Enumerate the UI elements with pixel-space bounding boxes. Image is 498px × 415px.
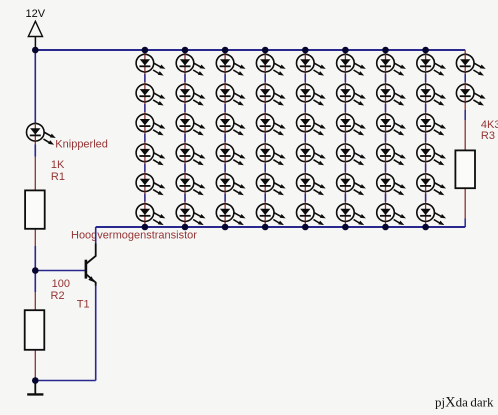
wire left vertical: 12V node down to Knipperled — [34, 50, 36, 123]
LED column 1 row 1 — [136, 54, 165, 75]
LED column 6 row 5 — [337, 174, 366, 195]
wire R1 bottom pin (red) — [34, 229, 36, 246]
junction top rail column 4 — [262, 47, 269, 54]
wire bottom LED return rail (horizontal blue) — [96, 226, 466, 228]
LED column 1 row 3 — [136, 114, 165, 135]
junction base node (R1/R2/T1 base) — [32, 267, 39, 274]
LED column 2 row 3 — [176, 114, 205, 135]
junction top rail column 3 — [222, 47, 229, 54]
LED column 8 row 6 — [417, 204, 446, 225]
junction bottom rail column 2 — [182, 224, 189, 231]
LED column 1 row 2 — [136, 84, 165, 105]
junction top rail column 6 — [342, 47, 349, 54]
resistor R1 (1K) — [25, 190, 45, 228]
LED column 4 row 3 — [256, 114, 285, 135]
power supply symbol 12V (arrow) — [28, 21, 42, 50]
wire LED column 8 (red series string) — [425, 50, 427, 227]
transistor T1 (NPN, Hoogvermogenstransistor) — [86, 244, 96, 286]
LED column 4 row 4 — [256, 144, 285, 165]
svg-text:R1: R1 — [51, 171, 65, 183]
LED column 4 row 2 — [256, 84, 285, 105]
LED column 4 row 1 — [256, 54, 285, 75]
svg-text:Knipperled: Knipperled — [55, 139, 108, 151]
junction bottom rail column 3 — [222, 224, 229, 231]
LED column 4 row 6 — [256, 204, 285, 225]
junction top rail column 1 — [142, 47, 149, 54]
wire base node to R2 (blue) — [34, 271, 36, 293]
LED column 3 row 4 — [216, 144, 245, 165]
resistor R2 (100) — [25, 310, 45, 350]
wire base node to T1 base (horizontal blue) — [35, 270, 85, 272]
wire LED column 1 (red series string) — [144, 50, 146, 227]
LED column 5 row 3 — [297, 114, 326, 135]
LED column 6 row 2 — [337, 84, 366, 105]
wire T1 collector up to LED return rail (blue) — [95, 227, 97, 244]
wire T1 emitter down (blue) — [95, 285, 97, 381]
LED right column row 2 — [456, 84, 485, 105]
LED column 6 row 4 — [337, 144, 366, 165]
junction 12V node (top left) — [32, 47, 39, 54]
LED column 5 row 5 — [297, 174, 326, 195]
LED column 5 row 1 — [297, 54, 326, 75]
svg-text:R3: R3 — [481, 130, 495, 142]
LED column 3 row 1 — [216, 54, 245, 75]
wire LED column 6 (red series string) — [344, 50, 346, 227]
LED column 2 row 5 — [176, 174, 205, 195]
LED column 7 row 3 — [377, 114, 406, 135]
wire Knipperled to R1 (blue segment) — [34, 144, 36, 156]
svg-text:pjXdadark: pjXdadark — [435, 395, 494, 411]
junction ground node — [32, 377, 39, 384]
wire top 12V rail (horizontal) — [35, 49, 465, 51]
junction top rail column 2 — [182, 47, 189, 54]
LED column 1 row 4 — [136, 144, 165, 165]
LED column 5 row 4 — [297, 144, 326, 165]
LED column 8 row 1 — [417, 54, 446, 75]
LED column 7 row 2 — [377, 84, 406, 105]
LED column 1 row 5 — [136, 174, 165, 195]
LED column 1 row 6 — [136, 204, 165, 225]
LED column 8 row 4 — [417, 144, 446, 165]
wire LED column 4 (red series string) — [264, 50, 266, 227]
LED Knipperled (blink indicator) — [27, 123, 56, 144]
junction bottom rail column 4 — [262, 224, 269, 231]
resistor R3 (4K3) — [455, 150, 475, 188]
junction bottom rail column 6 — [342, 224, 349, 231]
LED column 7 row 4 — [377, 144, 406, 165]
LED column 8 row 3 — [417, 114, 446, 135]
LED column 2 row 4 — [176, 144, 205, 165]
wire R2 bottom pin (red) — [34, 350, 36, 381]
junction bottom rail column 8 — [422, 224, 429, 231]
LED column 7 row 6 — [377, 204, 406, 225]
LED column 8 row 2 — [417, 84, 446, 105]
LED column 5 row 2 — [297, 84, 326, 105]
wire R2 top pin (red) — [34, 292, 36, 310]
LED column 7 row 1 — [377, 54, 406, 75]
svg-text:R2: R2 — [51, 290, 65, 302]
wire LED column 2 (red series string) — [184, 50, 186, 227]
svg-text:100: 100 — [52, 278, 70, 290]
wire LED column 5 (red series string) — [304, 50, 306, 227]
LED column 6 row 3 — [337, 114, 366, 135]
LED column 5 row 6 — [297, 204, 326, 225]
wire emitter to ground node (horizontal blue) — [35, 380, 95, 382]
LED column 3 row 3 — [216, 114, 245, 135]
wire right column (red series string to R3) — [464, 50, 466, 227]
LED column 3 row 2 — [216, 84, 245, 105]
junction top rail column 7 — [382, 47, 389, 54]
LED column 3 row 6 — [216, 204, 245, 225]
junction bottom rail column 1 — [142, 224, 149, 231]
LED column 2 row 2 — [176, 84, 205, 105]
junction bottom rail column 5 — [302, 224, 309, 231]
ground symbol — [27, 381, 43, 395]
wire R1 to base node (blue) — [34, 246, 36, 271]
wire Knipperled cathode lead (red) — [34, 142, 36, 145]
LED column 2 row 6 — [176, 204, 205, 225]
LED column 4 row 5 — [256, 174, 285, 195]
wire R1 top pin (red) — [34, 157, 36, 191]
svg-text:Hoogvermogenstransistor: Hoogvermogenstransistor — [71, 229, 197, 241]
LED column 8 row 5 — [417, 174, 446, 195]
svg-text:1K: 1K — [51, 159, 65, 171]
svg-text:12V: 12V — [26, 8, 46, 20]
LED column 6 row 1 — [337, 54, 366, 75]
LED right column row 1 — [456, 54, 485, 75]
LED column 3 row 5 — [216, 174, 245, 195]
junction top rail column 5 — [302, 47, 309, 54]
wire LED column 3 (red series string) — [224, 50, 226, 227]
svg-text:T1: T1 — [77, 298, 90, 310]
wire LED column 7 (red series string) — [385, 50, 387, 227]
LED column 2 row 1 — [176, 54, 205, 75]
LED column 7 row 5 — [377, 174, 406, 195]
LED column 6 row 6 — [337, 204, 366, 225]
junction bottom rail column 7 — [382, 224, 389, 231]
junction top rail column 8 — [422, 47, 429, 54]
